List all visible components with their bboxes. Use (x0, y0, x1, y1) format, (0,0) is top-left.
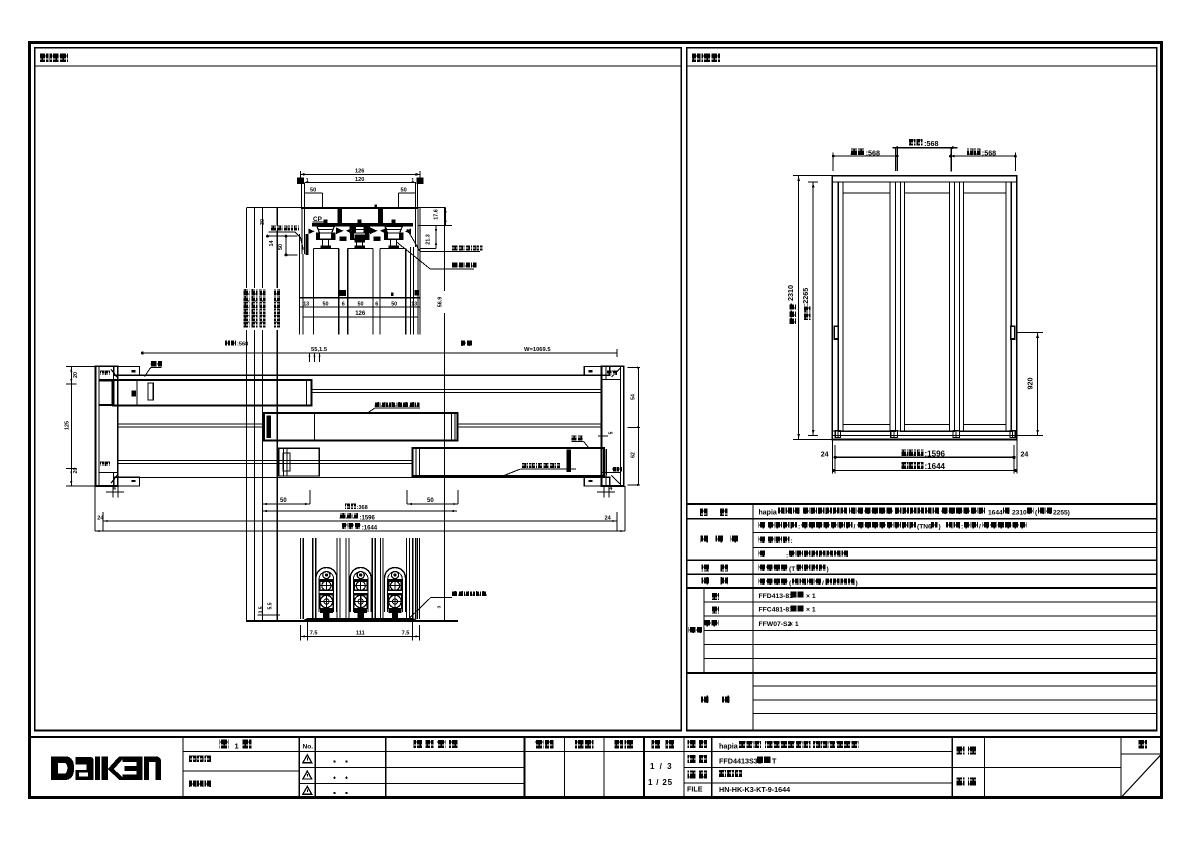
svg-text:50: 50 (280, 498, 287, 504)
svg-text:): ) (856, 580, 858, 587)
svg-text:hapia: hapia (719, 741, 739, 750)
revision date cell dividers (385, 737, 387, 798)
dim line 枠外寸1644 (95, 530, 625, 532)
vertical dim line 枠外高2318 (246, 208, 248, 622)
section break blobs (339, 290, 346, 296)
svg-text:24: 24 (1021, 451, 1029, 458)
label 改訂日 (189, 780, 196, 787)
svg-text::: : (961, 524, 963, 531)
bottom section panel edge lines (300, 538, 302, 619)
svg-text:56.9: 56.9 (438, 297, 444, 308)
svg-text:50: 50 (391, 302, 397, 308)
spec table label column divider (752, 504, 754, 731)
svg-text:1 / 3: 1 / 3 (650, 762, 673, 771)
hanger roller 3 (392, 219, 396, 223)
svg-text:50: 50 (323, 302, 329, 308)
label 床見切レール (452, 591, 457, 596)
panel tops below top section (314, 248, 339, 250)
vertical dim line 内法高2318 (254, 208, 256, 622)
svg-text:21.3: 21.3 (426, 234, 432, 245)
revision warning triangles (303, 755, 312, 763)
plan bottom dim 4 right (603, 486, 605, 498)
sheet label シート貼り (271, 225, 276, 230)
door frame head lines (832, 181, 1017, 183)
reference vertical line right of top section (444, 208, 446, 622)
plan bottom dim 4 left (112, 486, 114, 498)
sub label 引手 (704, 620, 711, 627)
svg-text:FFD4413S31: FFD4413S31 (719, 756, 762, 765)
hanger roller 1 (324, 219, 328, 223)
spec table thin rows 品番 (704, 601, 1157, 603)
svg-text:4: 4 (610, 486, 613, 492)
svg-text:50: 50 (358, 302, 364, 308)
svg-text:3.5: 3.5 (259, 606, 265, 613)
dim 50 right (399, 192, 416, 194)
sub label 扉 (712, 593, 719, 600)
label 吊車レール (452, 245, 457, 250)
label 作成日 (189, 755, 196, 762)
svg-text:62: 62 (631, 452, 637, 458)
dim 扉幅568 middle (894, 148, 896, 171)
svg-text::: : (786, 552, 788, 559)
svg-text:54: 54 (631, 394, 637, 400)
svg-text:126: 126 (355, 311, 366, 317)
svg-text:50: 50 (278, 244, 284, 250)
title 図名 text 三面図 (719, 770, 726, 777)
left jamb flange arms (114, 367, 140, 376)
dim 枠内寸1596 bottom (831, 440, 833, 474)
door bottom guide blocks (835, 431, 840, 438)
svg-text:FFC481-81: FFC481-81 (759, 607, 794, 614)
left frame header line (35, 65, 682, 67)
dim line 126 lower (303, 316, 418, 318)
vertical dim labels (rotated kanji+digits) (243, 288, 251, 330)
header 縮尺 (652, 740, 661, 749)
right frame 正面図 (687, 48, 1157, 731)
handle label 引手 panel1 (151, 361, 156, 366)
dim 枠外寸1644 bottom (832, 469, 1017, 471)
track line 2 (118, 423, 264, 425)
housing side lines extended down (298, 234, 300, 334)
svg-text::: : (798, 524, 800, 531)
svg-text:1: 1 (411, 178, 414, 184)
svg-text:1644: 1644 (988, 509, 1003, 516)
svg-text:× 1: × 1 (806, 593, 816, 600)
spec table section lines (687, 518, 1157, 520)
svg-text:120: 120 (355, 177, 364, 183)
label 引手 (702, 564, 709, 571)
right dim 21.3 (435, 226, 437, 249)
label 件名 (957, 746, 965, 754)
svg-text:hapia: hapia (759, 509, 777, 516)
svg-text:920: 920 (1025, 378, 1034, 390)
svg-text::1596: :1596 (360, 515, 376, 521)
vertical dim line 有効高2254.5 (262, 208, 264, 622)
title row lines right section (684, 766, 952, 768)
svg-text:/: / (822, 580, 824, 587)
svg-text::1596: :1596 (925, 449, 946, 458)
svg-text:24: 24 (821, 451, 829, 458)
top corner end caps (297, 177, 304, 184)
dim 扉幅568 left (832, 153, 834, 171)
sill plan line (140, 476, 585, 478)
plan bottom dim 50 right (406, 490, 408, 504)
clamp wedges between rollers (336, 228, 343, 235)
bottom dim 7.5/111/7.5 (300, 625, 302, 641)
svg-text:17.6: 17.6 (434, 209, 440, 220)
plan left vertical dim 20/125/20 (70, 366, 72, 486)
svg-text:13: 13 (411, 302, 417, 308)
svg-text::568: :568 (866, 148, 880, 157)
dim line 126 top (300, 173, 419, 175)
right door handle (1010, 325, 1015, 340)
svg-text:50: 50 (427, 498, 434, 504)
dim 50 left (305, 192, 322, 194)
label 品番 horizontal (689, 627, 695, 633)
housing left wall (301, 208, 303, 255)
housing top line + left dim tie line (247, 207, 301, 209)
svg-text:No.: No. (303, 744, 314, 751)
svg-text:111: 111 (356, 631, 365, 637)
jamb code marks right (607, 371, 612, 376)
svg-text::368: :368 (357, 505, 368, 511)
svg-text:5: 5 (609, 431, 615, 434)
spec row 枠 text (759, 551, 766, 558)
spec row ミラー text (759, 536, 766, 543)
floor guide roller 2 (350, 568, 371, 613)
hanger roller 2 (358, 219, 362, 223)
handle label 引手 panel3 (572, 435, 577, 440)
spec table thin rows 備考 (753, 685, 1157, 687)
DAIKEN logo (51, 756, 161, 780)
label 仕上げ (701, 535, 708, 542)
label 要式 (700, 508, 708, 516)
svg-text::: : (791, 538, 793, 545)
left door handle (834, 325, 839, 340)
svg-text:3: 3 (437, 605, 443, 608)
housing right wall (414, 208, 416, 248)
soft close device box (279, 448, 319, 476)
svg-text:7.5: 7.5 (310, 631, 318, 637)
svg-text::568: :568 (982, 148, 996, 157)
side extension lines above housing (300, 184, 302, 208)
svg-text:2310: 2310 (786, 285, 795, 301)
svg-text:(TN6: (TN6 (917, 524, 932, 531)
door frame outer (832, 176, 1017, 440)
svg-text:FILE: FILE (687, 784, 703, 793)
svg-text:125: 125 (65, 421, 71, 430)
svg-text:6: 6 (342, 302, 345, 308)
svg-text:6: 6 (375, 302, 378, 308)
left frame title 断面図 (40, 53, 49, 62)
right frame header line (687, 65, 1157, 67)
door frame sill lines (832, 430, 1017, 432)
dim line 枠内寸1596 (94, 486, 96, 531)
svg-text:14: 14 (269, 241, 275, 247)
door panel 3 plan (412, 448, 603, 476)
svg-text:): ) (827, 566, 829, 573)
svg-text:): ) (939, 524, 941, 531)
svg-text::1644: :1644 (925, 462, 946, 471)
door panel 2 front (901, 182, 955, 431)
dim 920 right (1017, 332, 1043, 334)
door panel 1 plan (113, 380, 312, 405)
件名 row divider (952, 766, 1121, 768)
track line 1 (312, 389, 602, 391)
label ピボット (452, 262, 457, 267)
left inner black bar (305, 234, 308, 255)
center roller dense blocks (350, 226, 357, 233)
floor guide roller 1 (316, 568, 337, 612)
dim 扉高2265 (812, 182, 814, 435)
door panel 1 front (838, 182, 895, 431)
title block top line (29, 736, 1163, 738)
label 品番 (688, 755, 696, 763)
plan right vertical dim 54/62 (638, 368, 640, 486)
頁 header line and diagonal (1121, 753, 1162, 755)
label 荷重位置を示す (375, 402, 380, 407)
svg-text:5.5: 5.5 (268, 602, 274, 609)
bottom rail profile (302, 618, 419, 621)
plan top dim arrows 55/1.5 (308, 353, 310, 362)
svg-text:W=1069.5: W=1069.5 (524, 347, 551, 353)
header 作成 (615, 740, 624, 749)
floor line (246, 620, 458, 622)
door panel 3 front (960, 182, 1012, 431)
panel1 handle recess (148, 383, 153, 400)
label 敷居 (702, 577, 709, 584)
header 承認 (535, 740, 544, 749)
jamb code marks left (100, 371, 105, 376)
panel3 handle detail (566, 450, 571, 473)
svg-text:13: 13 (303, 302, 309, 308)
svg-text:1: 1 (235, 741, 239, 750)
floor guide roller 3 (385, 568, 406, 613)
svg-text:30: 30 (260, 219, 266, 225)
svg-text:50: 50 (401, 188, 407, 194)
svg-text:/: / (979, 524, 981, 531)
vertical dim line FL2253 (276, 208, 278, 622)
svg-text:HN-HK-K3-KT-9-1644: HN-HK-K3-KT-9-1644 (719, 785, 790, 794)
panel2 section reference line (314, 414, 316, 440)
svg-text:FFD413-81: FFD413-81 (759, 593, 794, 600)
svg-text:1: 1 (306, 178, 309, 184)
label 頁 (1139, 740, 1148, 749)
svg-text:1 / 25: 1 / 25 (648, 778, 673, 787)
dim line 120 (305, 182, 416, 184)
revision date dots (333, 760, 335, 762)
svg-text:2255): 2255) (1053, 509, 1070, 516)
svg-text:7.5: 7.5 (402, 631, 410, 637)
dim line 扉有効 (262, 510, 457, 512)
spec table thin rows 仕上げ (753, 532, 1157, 534)
door panel 2 plan (264, 413, 458, 441)
spec row 引手 text (759, 564, 766, 571)
title row lines revision area (299, 766, 524, 768)
left frame bottom reinforce (35, 729, 682, 731)
svg-text::1644: :1644 (362, 526, 378, 532)
svg-text:20: 20 (73, 372, 79, 378)
plan top dim texts (225, 340, 230, 345)
label 備考 (701, 695, 709, 703)
svg-text:(T: (T (789, 566, 795, 573)
right jamb flange arms (584, 367, 610, 376)
title block verticals (182, 737, 184, 798)
right jamb C-profile (602, 366, 624, 486)
svg-text:24: 24 (605, 516, 612, 522)
svg-text:20: 20 (73, 468, 79, 474)
hanger partition bars (338, 208, 342, 224)
label 図名 (688, 770, 696, 778)
spec table top line (687, 503, 1157, 505)
spec row パネル text (759, 522, 766, 529)
svg-text:FFW07-S2: FFW07-S2 (759, 621, 792, 628)
left frame 断面図 (35, 48, 682, 731)
svg-text:4: 4 (113, 486, 116, 492)
dim 扉幅568 right (1014, 153, 1016, 171)
soft cushion label ソフトクッション (521, 463, 526, 468)
spec table 品番 sub divider (703, 588, 705, 673)
svg-text:T: T (772, 756, 777, 765)
right frame title 正面図 (692, 53, 701, 62)
dim 枠外高2310 left (793, 175, 832, 177)
title row line header (183, 750, 952, 752)
header 改訂履歴 (414, 740, 422, 748)
rail mount band (312, 223, 413, 226)
left jamb C-profile (96, 366, 118, 486)
spec row 敷居 text (759, 578, 766, 585)
svg-text:2310: 2310 (1012, 509, 1027, 516)
svg-text::568: :568 (924, 139, 938, 148)
svg-text:24: 24 (97, 516, 104, 522)
col2 divider 作成日/改訂日 (183, 770, 299, 772)
svg-text:55,1.5: 55,1.5 (311, 347, 328, 353)
svg-text:50: 50 (310, 188, 316, 194)
svg-text:126: 126 (355, 169, 364, 175)
svg-text:× 1: × 1 (789, 621, 799, 628)
track line 3 (118, 460, 413, 462)
svg-text:× 1: × 1 (806, 607, 816, 614)
label 図員 (957, 777, 965, 785)
right dim 17.6 (418, 207, 446, 209)
svg-text:/: / (854, 524, 856, 531)
sub label 枠 (712, 606, 719, 613)
plan bottom dim 50 left (261, 490, 263, 504)
head jamb plan line (140, 374, 585, 376)
label 名称 (688, 740, 696, 748)
plan top dim line (142, 352, 617, 354)
header 確認 (575, 740, 584, 749)
dim chain 13/50/6/50/6/50/13 (299, 297, 420, 299)
svg-text::2265: :2265 (801, 288, 810, 306)
header 第1面 (220, 739, 229, 748)
svg-text::568: :568 (237, 342, 248, 348)
